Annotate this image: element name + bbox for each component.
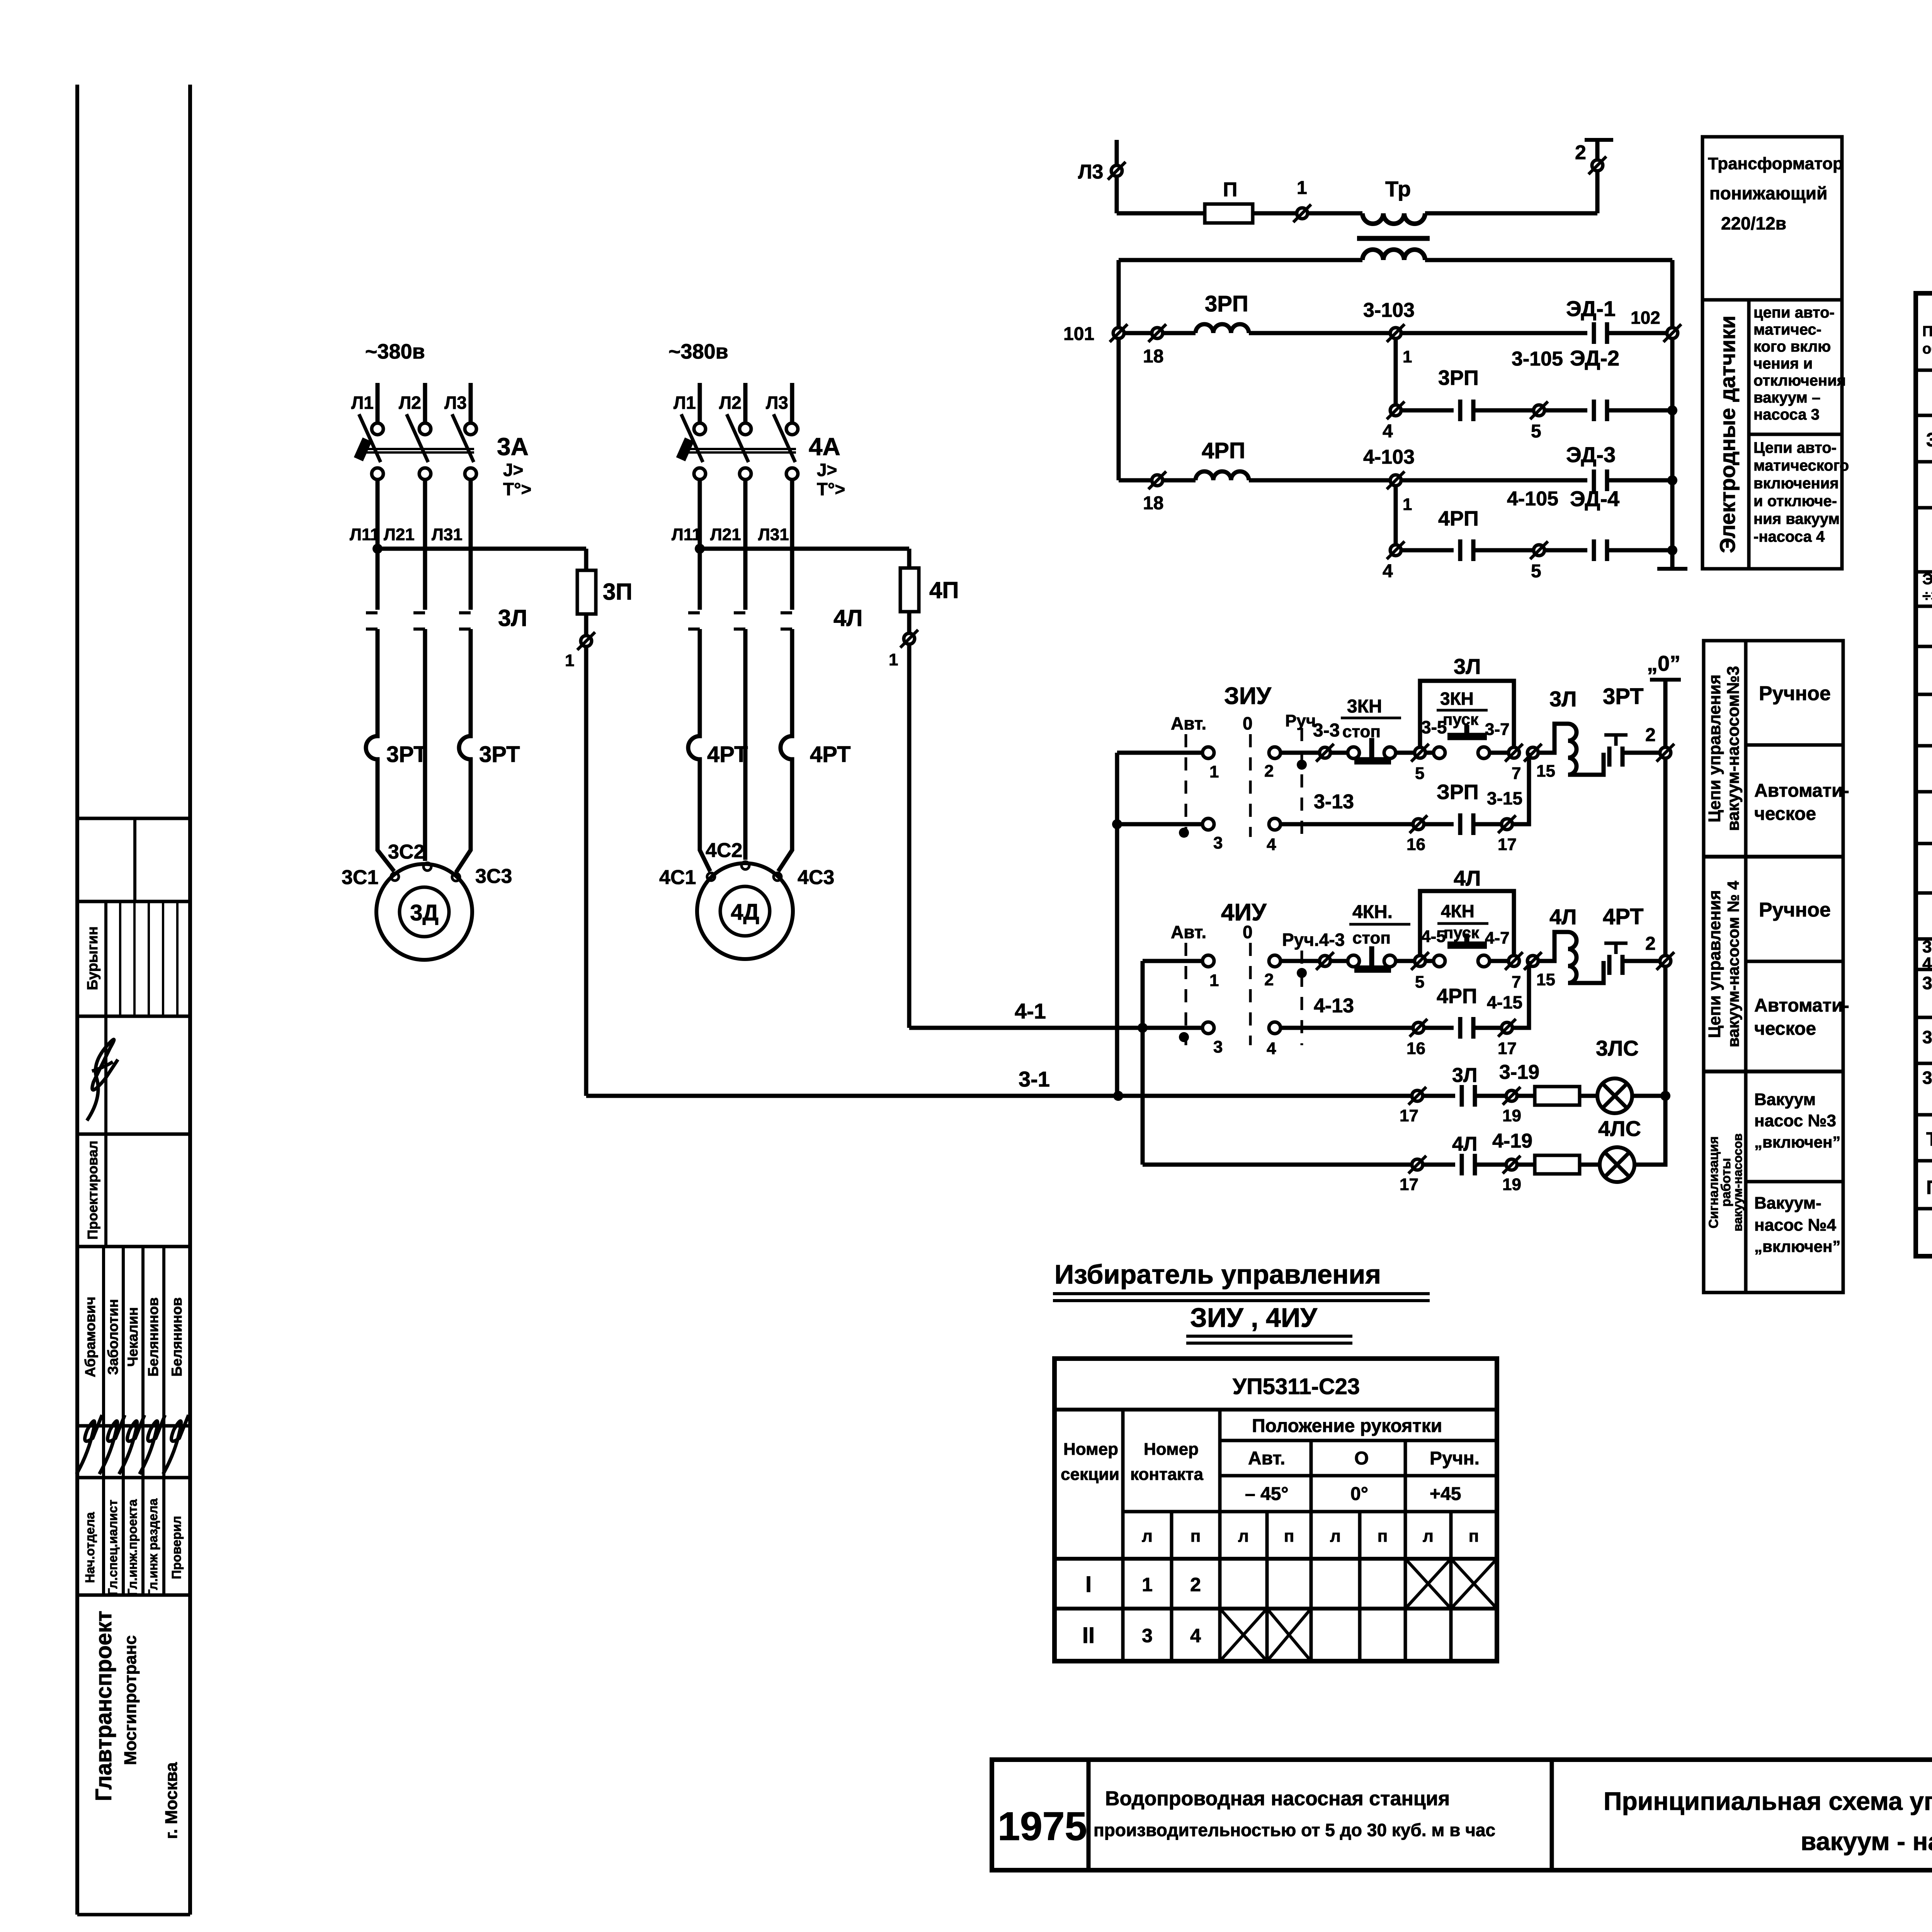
svg-text:1: 1 — [1403, 495, 1412, 514]
annotation box2 divider v — [1744, 641, 1748, 1293]
wire Л11 to fuse 4П — [700, 547, 909, 551]
svg-text:стоп: стоп — [1352, 929, 1391, 947]
svg-text:обозначение: обозначение — [1922, 341, 1932, 357]
svg-text:4-105: 4-105 — [1507, 488, 1558, 510]
wire 4ЛС row c — [1517, 1163, 1535, 1167]
svg-text:4РП: 4РП — [1437, 985, 1477, 1008]
svg-text:3Л: 3Л — [1452, 1064, 1477, 1087]
svg-text:5: 5 — [1415, 764, 1424, 783]
svg-text:4КН: 4КН — [1441, 901, 1475, 921]
svg-text:4-5: 4-5 — [1421, 927, 1446, 946]
selector row line lp — [1123, 1510, 1497, 1514]
svg-text:4РП: 4РП — [1202, 438, 1245, 463]
wire phase Л2 mid (4Д) — [743, 480, 748, 610]
svg-text:2: 2 — [1264, 762, 1274, 781]
svg-text:ЭД-1÷: ЭД-1÷ — [1922, 571, 1932, 588]
wire ЗИУ row2 c — [1473, 822, 1502, 827]
selector contact 4 (4ИУ) — [1269, 1022, 1281, 1034]
svg-text:II: II — [1082, 1623, 1095, 1648]
svg-text:1: 1 — [1297, 178, 1307, 198]
stamp divider line y=2935 — [77, 1133, 190, 1136]
stamp divider line y=3824 — [77, 1476, 190, 1480]
wire phase Л1 top (4Д) — [698, 383, 702, 423]
button 4КН стоп actuator — [1354, 946, 1391, 969]
stamp mini divider x=311 — [119, 901, 121, 1016]
svg-text:3РП: 3РП — [1438, 366, 1479, 389]
selector row line — [1054, 1408, 1497, 1412]
selector col 0 л|п — [1358, 1512, 1362, 1661]
breaker 4А upper contact Л2 — [740, 423, 751, 435]
svg-text:4: 4 — [1267, 835, 1276, 854]
svg-text:Номер: Номер — [1144, 1440, 1199, 1459]
signal lamp 3ЛС — [1597, 1078, 1632, 1113]
svg-text:3Д: 3Д — [410, 900, 439, 925]
wire phase Л1 mid (3Д) — [376, 480, 380, 610]
svg-text:3РП;: 3РП; — [1922, 937, 1932, 956]
0-bus top bar — [1650, 678, 1681, 682]
motor terminal 3С3 — [452, 873, 460, 881]
wire phase1 to 3С1 — [378, 835, 394, 871]
thermal contact 3РТ break mark — [1604, 735, 1628, 746]
svg-text:4: 4 — [1383, 561, 1393, 582]
terminal 16 (4ИУ) — [1410, 1019, 1427, 1037]
terminal 18 (4РП row) — [1148, 471, 1166, 489]
svg-text:Авт.: Авт. — [1171, 922, 1206, 942]
element table row line y=1673 — [1916, 645, 1932, 648]
terminal 3-7 — [1505, 744, 1523, 762]
thermal contact 3РТ — [1609, 747, 1622, 767]
wire ЗИУ row2 a — [1281, 822, 1413, 827]
selector contact 1 (4ИУ) — [1202, 955, 1214, 967]
wire 3РТ to bus — [1622, 751, 1660, 755]
wire phase Л1 top (3Д) — [376, 383, 380, 423]
svg-text:Избиратель управления: Избиратель управления — [1054, 1259, 1381, 1289]
svg-text:Л21: Л21 — [710, 525, 741, 544]
breaker 3А upper contact Л2 — [419, 423, 431, 435]
svg-text:Чекалин: Чекалин — [125, 1307, 141, 1367]
selector mark Авт row2 (ЗИУ) — [1179, 828, 1189, 838]
svg-text:матического: матического — [1753, 457, 1849, 474]
svg-text:Положение рукоятки: Положение рукоятки — [1252, 1416, 1442, 1436]
svg-text:4П: 4П — [929, 577, 959, 603]
wire row ЭД-1 e — [1607, 331, 1667, 335]
svg-text:4: 4 — [1267, 1039, 1276, 1058]
svg-text:Тр: Тр — [1385, 177, 1411, 201]
svg-text:19: 19 — [1502, 1106, 1521, 1125]
wire ЗИУ row2 b — [1424, 822, 1454, 827]
selector axis Руч (4ИУ) — [1301, 951, 1303, 1045]
svg-text:Л1: Л1 — [351, 393, 374, 413]
svg-text:3-7: 3-7 — [1485, 720, 1510, 739]
svg-text:стоп: стоп — [1342, 722, 1381, 741]
svg-text:4-7: 4-7 — [1485, 929, 1510, 947]
svg-text:насос №3: насос №3 — [1754, 1111, 1836, 1130]
svg-text:102: 102 — [1631, 308, 1660, 328]
wire phase lower (3Д) x=1100 — [423, 627, 427, 631]
svg-text:Мосгипротранс: Мосгипротранс — [121, 1635, 140, 1765]
annotation box: Трансформатор понижающий — [1702, 137, 1842, 569]
wire row ЭД-3 a — [1119, 478, 1152, 483]
wire 4ЛС row from 4ИУ vertical — [1143, 1163, 1412, 1167]
motor 4Д — [697, 863, 793, 959]
svg-text:вакуум-насосом№3: вакуум-насосом№3 — [1724, 666, 1743, 831]
annotation box1 divider h — [1702, 298, 1842, 302]
breaker 3А blade Л3 — [452, 414, 474, 462]
wire phase lower (4Д) x=2050 — [790, 629, 794, 734]
wire 4ИУ row2 c — [1473, 1026, 1502, 1030]
annotation box1 divider h2 — [1749, 433, 1842, 436]
terminal 4-105 — [1530, 541, 1548, 559]
stamp signature (проектировал) — [87, 1039, 118, 1121]
svg-text:3Л: 3Л — [498, 605, 527, 631]
svg-text:5: 5 — [1531, 561, 1541, 582]
svg-text:ЗИУ: ЗИУ — [1224, 683, 1272, 709]
annotation box: цепи управления — [1704, 641, 1843, 1293]
selector col 0|Ручн — [1404, 1440, 1407, 1661]
wire row ЭД-4 d — [1607, 548, 1672, 553]
svg-text:4: 4 — [1383, 421, 1393, 442]
selector col Авт|0 — [1310, 1440, 1313, 1661]
selector axis Авт (ЗИУ) — [1185, 734, 1187, 837]
svg-text:п: п — [1378, 1527, 1388, 1546]
svg-text:3РТ: 3РТ — [479, 742, 520, 767]
svg-text:Цепи управления: Цепи управления — [1705, 890, 1724, 1038]
svg-text:3С2: 3С2 — [388, 841, 425, 863]
svg-text:Гл.инж раздела: Гл.инж раздела — [146, 1498, 160, 1597]
selector col Номер секции — [1121, 1410, 1125, 1661]
terminal 4-7 — [1505, 952, 1523, 970]
wire 4ИУ row1 left lead — [1143, 959, 1202, 963]
relay coil 4РП — [1196, 471, 1249, 480]
ground bar (sensor bottom) — [1657, 567, 1687, 571]
svg-text:ЭД-3: ЭД-3 — [1566, 442, 1616, 467]
svg-text:1: 1 — [889, 650, 898, 669]
junction 3-1 / ЗИУ vertical — [1113, 1091, 1123, 1101]
relay coil 3РП — [1196, 324, 1249, 333]
svg-text:Ручн.: Ручн. — [1430, 1448, 1480, 1469]
annotation box1 divider v — [1747, 300, 1751, 569]
sensor contact ЭД-3 — [1594, 469, 1607, 491]
svg-text:4Л: 4Л — [1454, 866, 1481, 890]
wire fuse 4П drop — [907, 549, 912, 639]
svg-text:3ЛС: 3ЛС — [1596, 1036, 1639, 1060]
stamp mini divider x=348 — [133, 901, 136, 1016]
terminal 3-105 — [1530, 401, 1548, 419]
svg-text:Ручное: Ручное — [1759, 682, 1831, 705]
svg-text:2: 2 — [1190, 1574, 1201, 1595]
svg-text:3Л: 3Л — [1549, 687, 1577, 711]
wire secondary line right — [1425, 258, 1672, 262]
selector axis Авт (4ИУ) — [1185, 943, 1187, 1045]
wire phase Л3 top (4Д) — [790, 383, 794, 423]
title block divider x=4016 — [1550, 1760, 1554, 1870]
transformer Тр secondary winding — [1362, 250, 1425, 260]
wire 4ИУ left drop — [1141, 961, 1145, 1165]
relay contact 4РП (self-hold) — [1460, 1017, 1473, 1039]
stamp divider col — [104, 901, 107, 1247]
thermal contact 4РТ break mark — [1604, 943, 1628, 954]
stamp signature scribble — [99, 1415, 125, 1474]
motor terminal 3С2 — [423, 863, 431, 871]
selector contact 3 (ЗИУ) — [1202, 818, 1214, 830]
selector col л|п (контакт) — [1170, 1512, 1173, 1661]
button 3КН-пуск right terminal — [1478, 747, 1490, 759]
breaker 3А lower contact Л1 — [372, 468, 383, 480]
svg-text:3РП: 3РП — [1205, 291, 1248, 316]
contact 3Л tick x=1218 — [459, 613, 471, 629]
stamp name-col divider x=370 — [141, 1247, 145, 1595]
svg-text:чения и: чения и — [1753, 355, 1813, 372]
svg-text:л: л — [1142, 1527, 1153, 1546]
terminal 16 (ЗИУ) — [1410, 815, 1427, 833]
button 4КН-стоп right terminal — [1384, 955, 1396, 967]
svg-text:4: 4 — [1190, 1625, 1201, 1646]
relay contact ЗРП (self-hold) — [1460, 813, 1473, 835]
wire 4-1 bus — [909, 1026, 1202, 1030]
svg-text:Руч.4-3: Руч.4-3 — [1282, 930, 1345, 950]
svg-text:101: 101 — [1063, 324, 1094, 344]
stamp signature scribble — [119, 1415, 145, 1474]
wire row ЭД-2 a — [1401, 408, 1454, 413]
terminal 4-3 — [1316, 952, 1334, 970]
svg-text:220/12в: 220/12в — [1721, 213, 1786, 233]
svg-text:Автомати-: Автомати- — [1754, 781, 1849, 801]
terminal 1 (3П circuit) — [577, 632, 595, 650]
svg-text:Л3: Л3 — [1078, 161, 1103, 183]
sensor contact ЭД-4 — [1594, 539, 1607, 561]
svg-text:+45: +45 — [1430, 1484, 1461, 1504]
svg-text:3А: 3А — [497, 433, 529, 461]
svg-text:Л31: Л31 — [432, 525, 463, 544]
wire sensor right vertical — [1670, 260, 1675, 569]
wire ЗИУ left drop — [1115, 753, 1119, 1096]
stamp signature scribble — [163, 1415, 189, 1474]
svg-text:Белянинов: Белянинов — [145, 1297, 161, 1376]
selector X row I ручн-п — [1451, 1559, 1497, 1609]
wire phase3 to 4С3 — [778, 835, 792, 871]
wire phase Л3 mid (4Д) — [790, 480, 794, 610]
svg-text:Заболотин: Заболотин — [105, 1299, 121, 1375]
svg-text:„включен”: „включен” — [1754, 1133, 1840, 1151]
stamp name-col divider x=268 — [102, 1247, 105, 1595]
wire secondary line left — [1119, 258, 1362, 262]
sensor contact ЭД-1 — [1594, 322, 1607, 344]
terminal 15 (4ИУ) — [1524, 952, 1542, 970]
selector contact 4 (ЗИУ) — [1269, 818, 1281, 830]
wire 3П to 3-1 bus — [584, 647, 588, 1096]
stamp name-col divider x=424 — [162, 1247, 165, 1595]
terminal 3-3 — [1316, 744, 1334, 762]
selector mark Руч row1 (ЗИУ) — [1297, 760, 1307, 770]
svg-text:J>: J> — [817, 460, 837, 480]
contact 4Л tick x=1929 — [734, 613, 745, 629]
thermal relay 3РТ element x=1218 — [459, 732, 471, 767]
wire phase2 to 3С2 — [423, 629, 427, 861]
breaker 4А upper contact Л1 — [694, 423, 706, 435]
svg-text:кого вклю: кого вклю — [1753, 338, 1831, 355]
svg-text:понижающий: понижающий — [1709, 183, 1827, 203]
wire phase Л2 top (3Д) — [423, 383, 427, 423]
svg-text:5: 5 — [1531, 421, 1541, 442]
breaker 4А blade Л1 — [681, 414, 703, 462]
svg-text:Гл.спец.иалист: Гл.спец.иалист — [105, 1500, 120, 1595]
selector row line pol — [1220, 1439, 1497, 1442]
svg-text:3РТ: 3РТ — [1603, 684, 1644, 709]
junction ЭД-3 / right vertical — [1667, 475, 1677, 485]
svg-text:Принципиальная схема управлен: Принципиальная схема управления — [1604, 1787, 1932, 1815]
wire Л11 to fuse 3П — [378, 547, 586, 551]
selector row line II — [1054, 1607, 1497, 1611]
svg-text:Позиционное: Позиционное — [1922, 323, 1932, 340]
wire phase2 to 4С2 — [743, 629, 748, 860]
fuse 4П — [900, 568, 919, 612]
wire row ЭД-3 c — [1249, 478, 1390, 483]
button 3КН пуск actuator — [1447, 725, 1487, 736]
selector X row I ручн-л — [1405, 1559, 1451, 1609]
wire top line left — [1117, 211, 1205, 216]
svg-text:4РТ: 4РТ — [1603, 904, 1644, 929]
wire row ЭД-2 b — [1473, 408, 1534, 413]
motor terminal 4С3 — [774, 873, 781, 881]
wire row ЭД-3 d — [1401, 478, 1587, 483]
svg-text:4-15: 4-15 — [1487, 992, 1522, 1012]
terminal 3-19 — [1503, 1087, 1520, 1105]
relay contact 3РП — [1460, 400, 1473, 421]
wire coil 4Л to 4РТ — [1568, 961, 1604, 983]
element table row line y=958 — [1916, 369, 1932, 372]
breaker 3А trip double bar — [361, 449, 474, 452]
wire ЗИУ row1 left lead — [1117, 751, 1202, 755]
self-hold bracket 3Л — [1420, 681, 1514, 747]
wire 3-103 drop — [1394, 338, 1398, 410]
svg-text:4С3: 4С3 — [798, 866, 834, 889]
wire ЗИУ row1 to coil — [1538, 724, 1568, 753]
stamp divider line y=3226 — [77, 1245, 190, 1248]
element table row line y=2049 — [1916, 790, 1932, 794]
terminal 2 (4ИУ row1 end) — [1656, 952, 1674, 970]
selector mark Авт row2 (4ИУ) — [1179, 1032, 1189, 1042]
stamp divider line y=4955 — [77, 1913, 190, 1917]
stamp signature scribble — [77, 1415, 102, 1474]
svg-text:3Кн; 4Кн: 3Кн; 4Кн — [1922, 973, 1932, 993]
wire 4ИУ row1 b — [1330, 959, 1348, 963]
wire phase Л1 mid (4Д) — [698, 480, 702, 610]
0-bus vertical — [1663, 680, 1668, 1165]
svg-text:4С1: 4С1 — [659, 866, 696, 889]
selector contact 2 (4ИУ) — [1269, 955, 1281, 967]
terminal Л3 — [1108, 162, 1126, 180]
svg-text:15: 15 — [1536, 970, 1555, 989]
svg-text:3: 3 — [1213, 833, 1223, 852]
terminal 4-103 — [1387, 471, 1405, 489]
stamp divider (small row) — [133, 818, 136, 901]
svg-text:г. Москва: г. Москва — [162, 1762, 181, 1839]
wire ЗИУ row1 d — [1425, 751, 1434, 755]
svg-text:УП5311-С23: УП5311-С23 — [1233, 1374, 1360, 1399]
svg-text:отключения: отключения — [1753, 372, 1846, 389]
wire fuse to contact 1 — [1253, 211, 1297, 216]
selector col авт л|п — [1265, 1512, 1269, 1661]
resistor (3ЛС) — [1535, 1087, 1580, 1105]
svg-text:П: П — [1926, 1177, 1932, 1198]
wire sensor left vertical — [1117, 260, 1121, 480]
wire corner up to terminal 2 — [1595, 171, 1600, 213]
svg-text:J>: J> — [503, 460, 523, 480]
selector axis 0 (4ИУ) — [1249, 943, 1252, 1045]
terminal 4-15 — [1498, 1019, 1516, 1037]
svg-text:ЗИУ , 4ИУ: ЗИУ , 4ИУ — [1190, 1303, 1318, 1333]
svg-text:4РП: 4РП — [1922, 954, 1932, 973]
wire ЗИУ row2 left lead — [1117, 822, 1202, 827]
thermal relay 4РТ element x=1811 — [688, 732, 700, 767]
wire 3ЛС row b — [1475, 1094, 1506, 1098]
svg-text:Л31: Л31 — [758, 525, 789, 544]
element table row line y=3004 — [1916, 1159, 1932, 1163]
svg-text:7: 7 — [1512, 973, 1521, 992]
svg-text:Л2: Л2 — [719, 393, 742, 413]
annotation box2 cell line y=2488 — [1746, 960, 1843, 963]
svg-text:17: 17 — [1498, 1039, 1517, 1058]
terminal 4-5 — [1411, 952, 1429, 970]
wire 4ИУ row1 d — [1425, 959, 1434, 963]
button 4КН-стоп left terminal — [1348, 955, 1359, 967]
svg-text:п: п — [1190, 1527, 1201, 1546]
wire row ЭД-1 c — [1249, 331, 1390, 335]
svg-text:пуск: пуск — [1443, 710, 1479, 728]
junction 3ЛС / 0-bus — [1660, 1091, 1670, 1101]
element table row line y=1314 — [1916, 506, 1932, 510]
terminal 3-15 — [1498, 815, 1516, 833]
svg-text:1: 1 — [1403, 347, 1412, 366]
svg-text:-насоса 4: -насоса 4 — [1753, 528, 1825, 545]
thermal relay 3РТ element x=977 — [366, 732, 378, 767]
svg-text:4А: 4А — [809, 433, 840, 461]
svg-text:4РТ: 4РТ — [810, 742, 851, 767]
selector X row II авт-л — [1220, 1609, 1267, 1661]
annotation box2 cell line y=1928 — [1746, 743, 1843, 747]
thermal contact 4РТ — [1609, 955, 1622, 975]
wire 4ИУ row1 a — [1281, 959, 1320, 963]
svg-text:4-19: 4-19 — [1492, 1130, 1532, 1152]
annotation box2 section line y=2217 — [1704, 855, 1843, 859]
selector X row II авт-п — [1267, 1609, 1311, 1661]
svg-text:Л11: Л11 — [672, 525, 701, 544]
stamp mini divider x=422 — [162, 901, 164, 1016]
svg-text:16: 16 — [1406, 1039, 1425, 1058]
svg-text:4С2: 4С2 — [706, 839, 742, 862]
svg-text:– 45°: – 45° — [1245, 1484, 1289, 1504]
resistor (4ЛС) — [1535, 1155, 1580, 1174]
svg-text:П: П — [1223, 179, 1237, 201]
terminal 4 (4РП aux) — [1387, 541, 1405, 559]
svg-text:19: 19 — [1502, 1175, 1521, 1194]
svg-text:ческое: ческое — [1754, 804, 1816, 824]
svg-text:п: п — [1469, 1527, 1479, 1546]
selector contact 1 (ЗИУ) — [1202, 747, 1214, 759]
svg-text:4ЛС: 4ЛС — [1598, 1116, 1641, 1141]
svg-text:1975: 1975 — [998, 1804, 1087, 1849]
terminal 17 (3ЛС row) — [1408, 1087, 1426, 1105]
svg-text:Нач.отдела: Нач.отдела — [83, 1512, 97, 1583]
stamp signature scribble — [139, 1415, 165, 1474]
selector contact 3 (4ИУ) — [1202, 1022, 1214, 1034]
svg-text:Тр: Тр — [1926, 1128, 1932, 1150]
wire Тр to corner — [1425, 211, 1597, 216]
svg-text:Цепи авто-: Цепи авто- — [1753, 439, 1837, 456]
button 4КН-пуск left terminal — [1434, 955, 1445, 967]
svg-text:3Д, 4Д: 3Д, 4Д — [1926, 429, 1932, 451]
svg-text:4-103: 4-103 — [1363, 446, 1415, 468]
